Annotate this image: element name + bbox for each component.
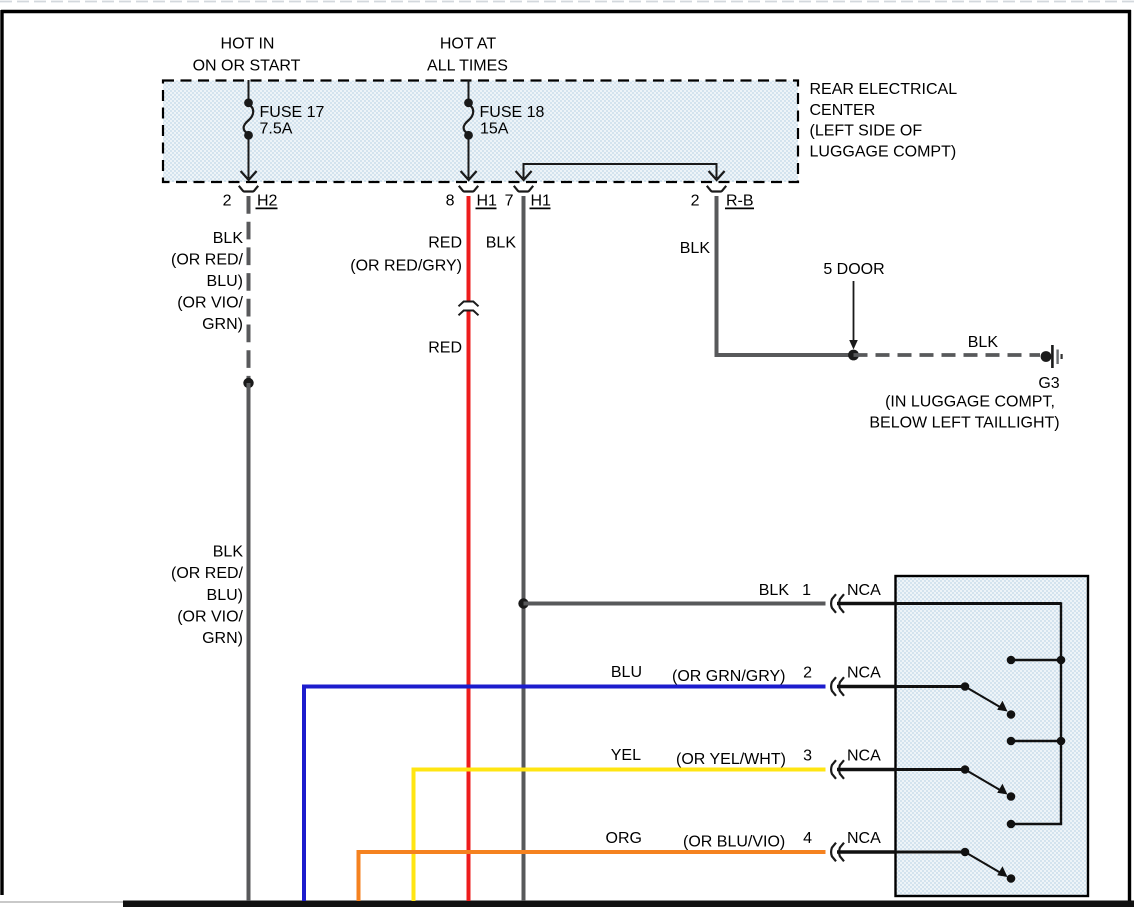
- fuse F18: [464, 98, 473, 107]
- svg-text:4: 4: [803, 830, 812, 847]
- connector cup pin 8 H1: [459, 186, 478, 192]
- svg-text:(OR VIO/: (OR VIO/: [177, 295, 243, 312]
- page border left: [0, 10, 3, 895]
- wire RED from pin 8 H1: [467, 196, 471, 302]
- page border top: [1, 10, 1131, 13]
- wire fuse18 to pin 8 H1 with arrow: [468, 136, 470, 179]
- svg-text:(OR RED/: (OR RED/: [171, 252, 244, 269]
- svg-text:2: 2: [223, 192, 232, 209]
- svg-text:NCA: NCA: [847, 582, 881, 599]
- svg-text:3: 3: [803, 748, 812, 765]
- contact pair row B: [1011, 740, 1061, 742]
- rear electrical center box (dashed, light blue): [163, 81, 798, 183]
- svg-text:BLK: BLK: [759, 582, 790, 599]
- wire BLK dashed from pin 2 H2: [247, 196, 251, 383]
- svg-text:GRN): GRN): [202, 630, 243, 647]
- wire BLU: [304, 687, 826, 902]
- wire BLK dashed to ground: [854, 353, 1041, 357]
- faint page-edge dashed line (top): [0, 1, 1134, 3]
- svg-text:(OR VIO/: (OR VIO/: [177, 609, 243, 626]
- svg-text:(IN LUGGAGE COMPT,: (IN LUGGAGE COMPT,: [885, 394, 1055, 411]
- fuse F17: [244, 98, 253, 107]
- svg-text:BLK: BLK: [213, 230, 244, 247]
- page border right: [1128, 10, 1131, 907]
- wire fuse17 feed: [248, 80, 250, 103]
- svg-text:FUSE 17: FUSE 17: [260, 104, 325, 121]
- svg-text:LUGGAGE COMPT): LUGGAGE COMPT): [810, 143, 957, 160]
- svg-text:FUSE 18: FUSE 18: [480, 104, 545, 121]
- svg-text:(OR RED/: (OR RED/: [171, 565, 244, 582]
- svg-text:G3: G3: [1038, 375, 1059, 392]
- ground G3: [1041, 351, 1052, 362]
- inline connector row1: [831, 594, 836, 613]
- inline connector row2: [831, 677, 836, 696]
- wire black row4 stub: [837, 850, 896, 854]
- bridge wire pin7 H1 to pin2 R-B inside box: [524, 164, 717, 178]
- svg-text:NCA: NCA: [847, 830, 881, 847]
- node splice on H2 wire: [243, 378, 253, 388]
- switch module box (solid, light blue): [896, 576, 1089, 896]
- svg-text:H1: H1: [531, 192, 552, 209]
- switch arm row2: [961, 682, 970, 691]
- switch internal bus: [896, 604, 1061, 825]
- svg-text:BLU): BLU): [207, 273, 243, 290]
- connector cup pin 2 H2: [239, 186, 258, 192]
- svg-text:(OR YEL/WHT): (OR YEL/WHT): [676, 751, 786, 768]
- svg-text:(OR RED/GRY): (OR RED/GRY): [350, 258, 462, 275]
- wire black row3 stub: [837, 768, 896, 772]
- svg-text:BLK: BLK: [680, 240, 711, 257]
- connector cup pin 2 R-B: [707, 186, 726, 192]
- wire black row1 stub: [837, 602, 896, 606]
- svg-text:5 DOOR: 5 DOOR: [823, 261, 884, 278]
- switch arm row4: [961, 848, 970, 857]
- svg-text:BLU: BLU: [611, 664, 642, 681]
- wire black row2 stub: [837, 685, 896, 689]
- svg-text:CENTER: CENTER: [810, 102, 876, 119]
- svg-text:HOT AT: HOT AT: [440, 36, 497, 53]
- connector cup pin 7 H1: [514, 186, 533, 192]
- wire fuse17 to pin 2 H2 with arrow: [248, 136, 250, 179]
- svg-text:NCA: NCA: [847, 665, 881, 682]
- svg-text:RED: RED: [428, 340, 462, 357]
- node junction on pin7 wire: [518, 598, 528, 608]
- svg-text:BLK: BLK: [486, 235, 517, 252]
- svg-text:NCA: NCA: [847, 748, 881, 765]
- switch arm row3: [961, 765, 970, 774]
- svg-text:R-B: R-B: [726, 192, 754, 209]
- wire BLK row1 to NCA: [524, 602, 826, 606]
- contact row C: [1007, 820, 1016, 829]
- svg-text:RED: RED: [428, 235, 462, 252]
- svg-text:H1: H1: [477, 192, 498, 209]
- svg-text:YEL: YEL: [611, 747, 641, 764]
- wire ORG: [359, 852, 826, 901]
- svg-text:BELOW LEFT TAILLIGHT): BELOW LEFT TAILLIGHT): [869, 415, 1059, 432]
- wire fuse18 feed: [468, 80, 470, 103]
- inline connector row4: [831, 843, 836, 862]
- wire BLK from pin 2 R-B down and right: [717, 196, 854, 355]
- svg-text:HOT IN: HOT IN: [221, 36, 275, 53]
- svg-text:7.5A: 7.5A: [260, 121, 293, 138]
- svg-text:15A: 15A: [480, 121, 509, 138]
- svg-text:ALL TIMES: ALL TIMES: [427, 58, 508, 75]
- wire BLK solid lower: [247, 383, 251, 901]
- wire YEL: [414, 770, 826, 902]
- wire BLK from pin 7 H1: [522, 196, 526, 901]
- svg-text:2: 2: [803, 665, 812, 682]
- svg-text:BLK: BLK: [968, 334, 999, 351]
- wire-interrupt chevrons on RED wire: [459, 302, 479, 307]
- svg-text:8: 8: [446, 192, 455, 209]
- svg-text:(OR BLU/VIO): (OR BLU/VIO): [683, 834, 785, 851]
- svg-text:H2: H2: [257, 192, 278, 209]
- inline connector row3: [831, 760, 836, 779]
- bottom black bar: [123, 901, 1134, 907]
- svg-text:REAR ELECTRICAL: REAR ELECTRICAL: [810, 81, 958, 98]
- svg-text:BLK: BLK: [213, 544, 244, 561]
- svg-text:2: 2: [691, 192, 700, 209]
- svg-text:(OR GRN/GRY): (OR GRN/GRY): [672, 668, 785, 685]
- node junction 5-door: [848, 350, 859, 361]
- contact pair row A: [1011, 659, 1061, 661]
- svg-text:BLU): BLU): [207, 587, 243, 604]
- svg-text:GRN): GRN): [202, 316, 243, 333]
- svg-text:1: 1: [802, 582, 811, 599]
- svg-text:7: 7: [505, 192, 514, 209]
- svg-text:ORG: ORG: [606, 830, 642, 847]
- svg-text:ON OR START: ON OR START: [193, 58, 301, 75]
- svg-text:(LEFT SIDE OF: (LEFT SIDE OF: [810, 123, 923, 140]
- faint page-edge line (bottom-left): [0, 901, 123, 903]
